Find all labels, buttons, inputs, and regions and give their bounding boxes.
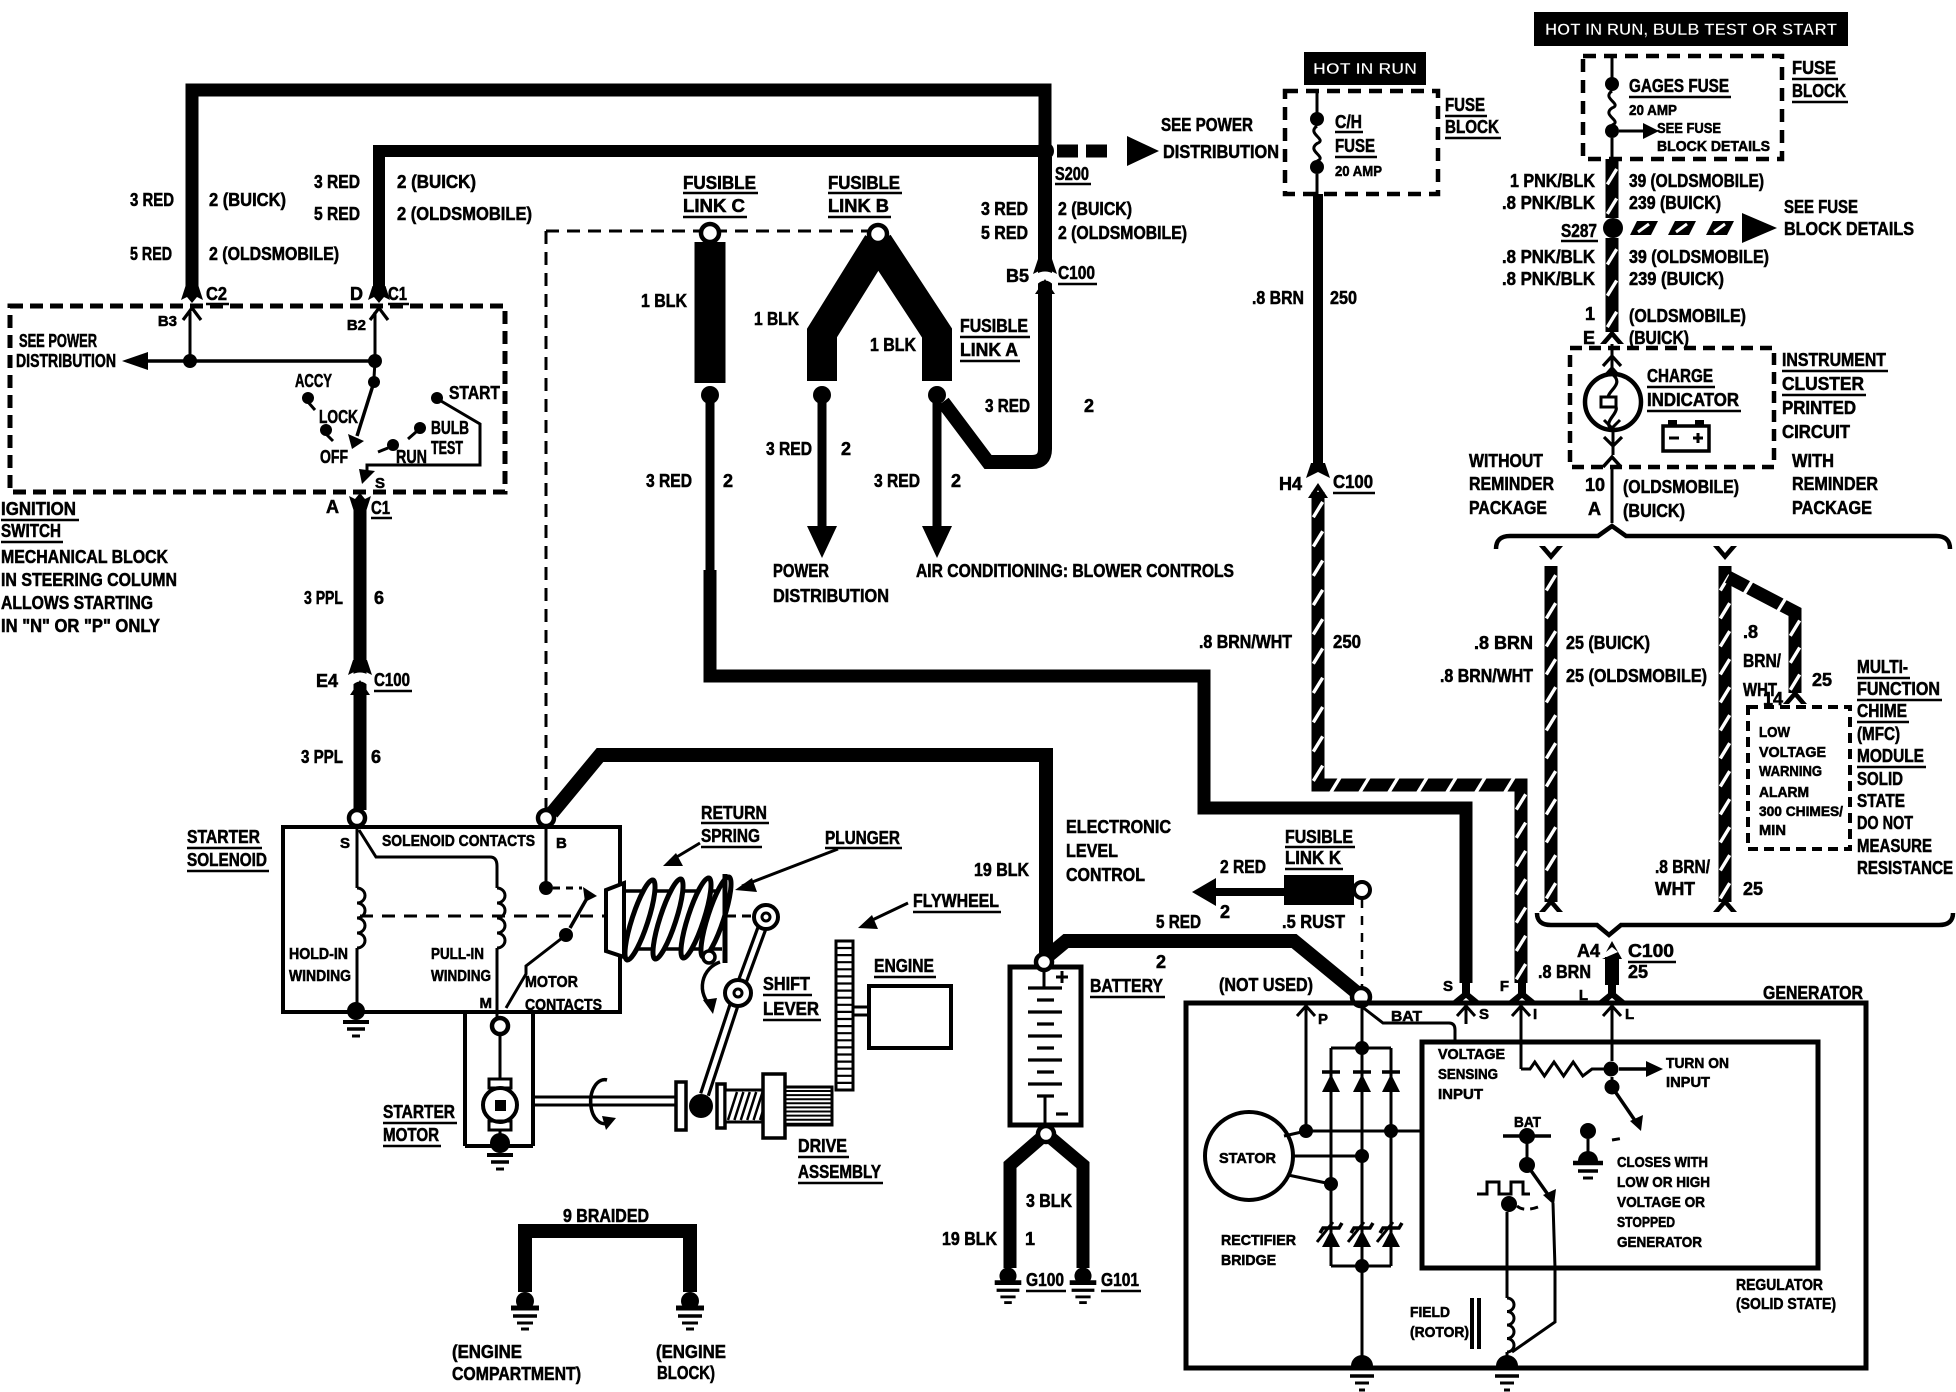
plunger face plate xyxy=(723,874,728,963)
terminal L generator xyxy=(1608,982,1616,996)
svg-text:FUSIBLE: FUSIBLE xyxy=(828,173,900,193)
svg-text:C100: C100 xyxy=(1333,472,1373,492)
stator xyxy=(1205,1112,1293,1200)
svg-text:INSTRUMENT: INSTRUMENT xyxy=(1782,350,1886,370)
svg-text:LEVEL: LEVEL xyxy=(1066,841,1118,861)
motor contacts switch xyxy=(545,826,548,882)
connector C1 terminal D xyxy=(368,286,390,303)
stator phase wires xyxy=(1284,1131,1422,1136)
svg-text:25: 25 xyxy=(1812,670,1832,690)
svg-text:RECTIFIER: RECTIFIER xyxy=(1221,1232,1296,1249)
svg-text:39 (OLDSMOBILE): 39 (OLDSMOBILE) xyxy=(1629,171,1764,191)
svg-text:3 RED: 3 RED xyxy=(981,199,1028,219)
svg-text:2: 2 xyxy=(723,471,733,491)
svg-text:D: D xyxy=(350,284,363,304)
svg-text:HOT IN RUN, BULB TEST OR START: HOT IN RUN, BULB TEST OR START xyxy=(1545,20,1838,39)
generator box xyxy=(1186,1003,1866,1368)
svg-text:3 RED: 3 RED xyxy=(874,471,920,491)
ground field winding xyxy=(1506,1352,1509,1356)
svg-text:MIN: MIN xyxy=(1759,822,1786,839)
svg-text:5 RED: 5 RED xyxy=(314,204,360,224)
svg-text:239 (BUICK): 239 (BUICK) xyxy=(1629,193,1721,213)
svg-text:BRN/: BRN/ xyxy=(1743,651,1781,671)
svg-text:19 BLK: 19 BLK xyxy=(974,860,1029,880)
svg-text:WHT: WHT xyxy=(1655,879,1695,899)
svg-text:STATE: STATE xyxy=(1857,791,1905,811)
svg-text:GENERATOR: GENERATOR xyxy=(1617,1234,1702,1251)
helix section hatched xyxy=(725,1090,763,1122)
svg-text:REMINDER: REMINDER xyxy=(1792,474,1878,494)
svg-text:3 RED: 3 RED xyxy=(766,439,812,459)
svg-text:SEE FUSE: SEE FUSE xyxy=(1784,197,1858,217)
svg-text:2 (BUICK): 2 (BUICK) xyxy=(1058,199,1132,219)
svg-text:B2: B2 xyxy=(347,317,366,334)
svg-text:BLOCK: BLOCK xyxy=(1445,117,1499,137)
svg-text:VOLTAGE OR: VOLTAGE OR xyxy=(1617,1194,1705,1211)
svg-text:SENSING: SENSING xyxy=(1438,1066,1498,1083)
rotation arrow on shaft xyxy=(591,1080,610,1124)
node S terminal solenoid xyxy=(349,810,365,826)
svg-text:START: START xyxy=(449,383,500,403)
svg-text:PLUNGER: PLUNGER xyxy=(825,828,900,848)
wire B3 to bus xyxy=(189,312,192,361)
svg-text:WINDING: WINDING xyxy=(431,968,491,985)
svg-text:RETURN: RETURN xyxy=(701,803,767,823)
wire 3 RED link C to generator S terminal xyxy=(710,570,1466,983)
internal terminal arrows P S I L BAT xyxy=(1305,1006,1308,1024)
ignition switch rotary contacts xyxy=(374,361,375,378)
brace top xyxy=(1496,526,1950,549)
svg-text:C2: C2 xyxy=(206,284,227,304)
connector C1 terminal A at bottom of ignition switch xyxy=(349,493,371,510)
svg-text:GAGES FUSE: GAGES FUSE xyxy=(1629,76,1729,96)
svg-text:FUSIBLE: FUSIBLE xyxy=(960,316,1028,336)
svg-text:3 RED: 3 RED xyxy=(985,396,1030,416)
wire .8 BRN 25 BUICK left hatched xyxy=(1539,546,1563,560)
svg-text:IN STEERING COLUMN: IN STEERING COLUMN xyxy=(1,570,177,590)
rectifier bridge xyxy=(1331,1047,1391,1050)
svg-text:VOLTAGE: VOLTAGE xyxy=(1759,744,1826,761)
svg-text:WITHOUT: WITHOUT xyxy=(1469,451,1543,471)
gages fuse 20 amp xyxy=(1611,56,1614,78)
wire 3 RED to AIR CONDITIONING arrow xyxy=(933,395,942,528)
svg-text:AIR CONDITIONING: BLOWER CONTR: AIR CONDITIONING: BLOWER CONTROLS xyxy=(916,561,1234,581)
splined shaft xyxy=(785,1087,832,1125)
svg-text:WINDING: WINDING xyxy=(289,968,351,985)
svg-text:ASSEMBLY: ASSEMBLY xyxy=(798,1162,881,1182)
svg-text:S: S xyxy=(340,835,350,852)
starter motor M xyxy=(499,1034,502,1080)
svg-text:MOTOR: MOTOR xyxy=(525,974,578,991)
arrow SEE FUSE BLOCK DETAILS inside fuse box xyxy=(1619,130,1643,133)
wire regulator to field xyxy=(1512,1203,1555,1352)
svg-text:PACKAGE: PACKAGE xyxy=(1792,498,1872,518)
svg-text:25: 25 xyxy=(1743,879,1763,899)
svg-text:10: 10 xyxy=(1585,475,1605,495)
svg-text:LEVER: LEVER xyxy=(763,999,819,1019)
svg-text:L: L xyxy=(1625,1006,1634,1023)
wire .8 BRN/WHT 250 to generator F terminal xyxy=(1318,492,1521,983)
svg-text:2 (BUICK): 2 (BUICK) xyxy=(397,172,476,192)
svg-text:CHARGE: CHARGE xyxy=(1647,366,1713,386)
svg-text:SWITCH: SWITCH xyxy=(1,521,61,541)
L terminal switch xyxy=(1611,1022,1614,1061)
svg-text:BLOCK): BLOCK) xyxy=(657,1363,715,1383)
svg-text:2: 2 xyxy=(841,439,851,459)
svg-text:IN "N" OR "P" ONLY: IN "N" OR "P" ONLY xyxy=(1,616,160,636)
svg-text:M: M xyxy=(480,995,493,1012)
svg-text:FIELD: FIELD xyxy=(1410,1304,1450,1321)
wire dashed arrow SEE POWER DISTRIBUTION right xyxy=(1057,145,1078,158)
svg-text:MODULE: MODULE xyxy=(1857,746,1924,766)
svg-text:25: 25 xyxy=(1628,962,1648,982)
wire 3 RED to POWER DISTRIBUTION arrow xyxy=(818,395,827,528)
svg-text:CLOSES WITH: CLOSES WITH xyxy=(1617,1154,1708,1171)
battery icon in cluster xyxy=(1663,426,1709,451)
svg-text:PRINTED: PRINTED xyxy=(1782,398,1856,418)
svg-text:B5: B5 xyxy=(1006,266,1029,286)
wire 3 BLK battery to G101 xyxy=(1051,1138,1083,1268)
svg-text:3 PPL: 3 PPL xyxy=(301,747,343,767)
svg-text:(NOT USED): (NOT USED) xyxy=(1219,975,1313,995)
svg-text:S200: S200 xyxy=(1055,164,1089,184)
svg-text:P: P xyxy=(1318,1011,1328,1028)
svg-text:3 PPL: 3 PPL xyxy=(304,588,343,608)
drive shaft from motor xyxy=(533,1096,676,1099)
svg-text:SOLENOID: SOLENOID xyxy=(187,850,267,870)
svg-text:FUNCTION: FUNCTION xyxy=(1857,679,1940,699)
svg-text:2 (BUICK): 2 (BUICK) xyxy=(209,190,286,210)
hold-in winding xyxy=(356,827,359,888)
svg-text:(OLDSMOBILE): (OLDSMOBILE) xyxy=(1629,306,1746,326)
wire 5 RED battery to generator BAT xyxy=(1048,941,1356,992)
wire .8 BRN 25 to L terminal xyxy=(1605,957,1619,985)
ground engine block xyxy=(681,1292,699,1310)
wire cluster to brace xyxy=(1611,467,1614,523)
svg-text:1 PNK/BLK: 1 PNK/BLK xyxy=(1510,171,1595,191)
svg-text:5 RED: 5 RED xyxy=(130,244,172,264)
svg-text:STOPPED: STOPPED xyxy=(1617,1214,1675,1231)
svg-text:.8 BRN/WHT: .8 BRN/WHT xyxy=(1440,666,1533,686)
ground at hold-in winding xyxy=(347,1002,365,1020)
svg-text:(BUICK): (BUICK) xyxy=(1623,501,1685,521)
svg-text:25 (OLDSMOBILE): 25 (OLDSMOBILE) xyxy=(1566,666,1707,686)
resistor and turn on input xyxy=(1520,1022,1523,1069)
svg-text:1: 1 xyxy=(1025,1229,1035,1249)
svg-text:BLOCK DETAILS: BLOCK DETAILS xyxy=(1657,138,1770,155)
wire .8 BRN/WHT 25 right hatched xyxy=(1713,546,1737,560)
svg-text:3 BLK: 3 BLK xyxy=(1026,1191,1072,1211)
wire W1: battery feed top-left to S200 corner xyxy=(192,90,1045,288)
drive collar and ball xyxy=(676,1082,686,1130)
svg-text:C100: C100 xyxy=(1058,263,1095,283)
svg-text:SHIFT: SHIFT xyxy=(763,974,810,994)
engine box xyxy=(853,1006,869,1009)
svg-text:ELECTRONIC: ELECTRONIC xyxy=(1066,817,1171,837)
svg-text:I: I xyxy=(1533,1006,1537,1023)
starter motor box xyxy=(463,1012,467,1146)
svg-text:.8 BRN: .8 BRN xyxy=(1474,633,1533,653)
svg-text:3 RED: 3 RED xyxy=(646,471,692,491)
ground L switch xyxy=(1578,1151,1598,1161)
svg-text:CHIME: CHIME xyxy=(1857,701,1907,721)
pull-in winding xyxy=(359,830,497,888)
svg-text:1 BLK: 1 BLK xyxy=(641,291,687,311)
title HOT IN RUN xyxy=(1304,52,1426,85)
shift lever xyxy=(746,930,765,983)
svg-text:LOW OR HIGH: LOW OR HIGH xyxy=(1617,1174,1710,1191)
svg-text:BRIDGE: BRIDGE xyxy=(1221,1252,1276,1269)
svg-text:BULB: BULB xyxy=(431,418,469,438)
fusible link A xyxy=(869,225,887,243)
svg-text:19 BLK: 19 BLK xyxy=(942,1229,997,1249)
svg-text:3 RED: 3 RED xyxy=(314,172,360,192)
regulator box xyxy=(1422,1042,1818,1268)
node battery negative terminal xyxy=(1038,1126,1054,1142)
svg-text:LOCK: LOCK xyxy=(319,407,358,427)
svg-text:250: 250 xyxy=(1330,288,1357,308)
svg-text:F: F xyxy=(1500,978,1509,995)
ground G101 xyxy=(1074,1267,1091,1284)
wire 1 PNK/BLK fuse to S287 xyxy=(1606,159,1619,218)
title HOT IN RUN BULB TEST OR START xyxy=(1534,12,1848,46)
dashed link plunger to shift lever xyxy=(727,915,752,918)
svg-text:SPRING: SPRING xyxy=(701,826,760,846)
wire B2 to bus xyxy=(374,312,377,361)
svg-text:TEST: TEST xyxy=(431,438,463,458)
svg-text:S: S xyxy=(1443,978,1453,995)
wire W2: second feed to S200 junction xyxy=(379,151,1040,288)
svg-text:39 (OLDSMOBILE): 39 (OLDSMOBILE) xyxy=(1629,247,1769,267)
svg-text:HOLD-IN: HOLD-IN xyxy=(289,946,348,963)
svg-text:MULTI-: MULTI- xyxy=(1857,657,1908,677)
svg-text:A: A xyxy=(326,497,339,517)
svg-text:DISTRIBUTION: DISTRIBUTION xyxy=(1163,142,1279,162)
svg-text:(SOLID STATE): (SOLID STATE) xyxy=(1736,1296,1836,1313)
svg-text:BLOCK: BLOCK xyxy=(1792,81,1846,101)
svg-text:ALLOWS STARTING: ALLOWS STARTING xyxy=(1,593,153,613)
charge indicator bulb xyxy=(1611,344,1614,376)
svg-text:RESISTANCE: RESISTANCE xyxy=(1857,858,1953,878)
svg-text:G101: G101 xyxy=(1101,1270,1139,1290)
wire internal bus with arrow to SEE POWER DISTRIBUTION xyxy=(128,359,375,363)
svg-text:BATTERY: BATTERY xyxy=(1090,976,1163,996)
wire 19 BLK solenoid B to battery positive xyxy=(552,755,1046,953)
brace bottom xyxy=(1537,913,1953,935)
svg-text:2: 2 xyxy=(951,471,961,491)
svg-text:2 (OLDSMOBILE): 2 (OLDSMOBILE) xyxy=(1058,223,1187,243)
svg-text:ACCY: ACCY xyxy=(295,371,332,391)
battery xyxy=(1010,967,1081,1125)
flywheel gear rack xyxy=(836,941,853,1090)
svg-text:250: 250 xyxy=(1333,632,1361,652)
svg-text:BLOCK DETAILS: BLOCK DETAILS xyxy=(1784,219,1914,239)
svg-text:DISTRIBUTION: DISTRIBUTION xyxy=(16,351,116,371)
MFC module dashed box xyxy=(1748,707,1850,849)
svg-text:B: B xyxy=(556,835,567,852)
drive collar large xyxy=(763,1074,785,1138)
svg-text:LINK A: LINK A xyxy=(960,340,1018,360)
svg-text:.8 PNK/BLK: .8 PNK/BLK xyxy=(1502,247,1595,267)
svg-text:VOLTAGE: VOLTAGE xyxy=(1438,1046,1505,1063)
svg-text:INPUT: INPUT xyxy=(1438,1086,1483,1103)
svg-text:WARNING: WARNING xyxy=(1759,763,1822,780)
svg-text:2 (OLDSMOBILE): 2 (OLDSMOBILE) xyxy=(397,204,532,224)
svg-text:SEE POWER: SEE POWER xyxy=(19,331,97,351)
svg-text:(OLDSMOBILE): (OLDSMOBILE) xyxy=(1623,477,1739,497)
svg-text:A4: A4 xyxy=(1577,941,1600,961)
svg-text:DISTRIBUTION: DISTRIBUTION xyxy=(773,586,889,606)
svg-text:(BUICK): (BUICK) xyxy=(1629,328,1689,348)
svg-text:LINK B: LINK B xyxy=(828,196,889,216)
svg-text:WITH: WITH xyxy=(1792,451,1834,471)
ignition switch dashed box xyxy=(10,306,505,492)
svg-text:2: 2 xyxy=(1220,902,1230,922)
plunger linkage dashed line xyxy=(360,915,606,918)
svg-text:S: S xyxy=(375,475,385,492)
svg-text:LOW: LOW xyxy=(1759,724,1791,741)
svg-text:CIRCUIT: CIRCUIT xyxy=(1782,422,1850,442)
svg-text:TURN ON: TURN ON xyxy=(1666,1055,1729,1072)
ground engine compartment xyxy=(516,1292,534,1310)
svg-text:DRIVE: DRIVE xyxy=(798,1136,847,1156)
svg-text:GENERATOR: GENERATOR xyxy=(1763,983,1863,1003)
svg-text:5 RED: 5 RED xyxy=(1156,912,1201,932)
svg-text:(ENGINE: (ENGINE xyxy=(656,1342,726,1362)
svg-text:S287: S287 xyxy=(1561,221,1597,241)
svg-text:LINK C: LINK C xyxy=(683,196,745,216)
svg-text:H4: H4 xyxy=(1279,474,1302,494)
svg-text:G100: G100 xyxy=(1026,1270,1064,1290)
svg-text:C1: C1 xyxy=(371,498,390,518)
svg-text:FUSE: FUSE xyxy=(1792,58,1836,78)
svg-text:SEE POWER: SEE POWER xyxy=(1161,115,1253,135)
svg-text:6: 6 xyxy=(374,588,384,608)
plunger and cylinder xyxy=(606,883,624,957)
svg-text:OFF: OFF xyxy=(320,447,348,467)
svg-text:HOT IN RUN: HOT IN RUN xyxy=(1313,61,1417,78)
svg-text:239 (BUICK): 239 (BUICK) xyxy=(1629,269,1724,289)
return spring coils xyxy=(619,878,660,963)
fuse C/H 20 AMP xyxy=(1316,91,1319,113)
svg-text:REGULATOR: REGULATOR xyxy=(1736,1277,1823,1294)
ground rectifier bridge xyxy=(1361,1266,1364,1356)
svg-text:300 CHIMES/: 300 CHIMES/ xyxy=(1759,803,1843,819)
wire P to stator bus xyxy=(1305,1022,1308,1131)
svg-text:.8 BRN: .8 BRN xyxy=(1252,288,1304,308)
node S200 junction dot xyxy=(1036,142,1054,160)
svg-text:CONTROL: CONTROL xyxy=(1066,865,1145,885)
svg-text:DO NOT: DO NOT xyxy=(1857,813,1913,833)
svg-text:.5 RUST: .5 RUST xyxy=(1282,912,1345,932)
field rotor winding xyxy=(1506,1212,1509,1298)
svg-text:SEE FUSE: SEE FUSE xyxy=(1657,120,1721,137)
svg-text:STARTER: STARTER xyxy=(187,827,260,847)
svg-text:.8: .8 xyxy=(1743,622,1758,642)
svg-text:1 BLK: 1 BLK xyxy=(870,335,916,355)
connector C2 at ignition switch xyxy=(181,286,203,303)
svg-text:2: 2 xyxy=(1084,396,1094,416)
dashed wire from fusible links to solenoid B xyxy=(546,230,868,233)
svg-text:(ROTOR): (ROTOR) xyxy=(1410,1324,1469,1341)
svg-text:FUSIBLE: FUSIBLE xyxy=(683,173,756,193)
wire 3 RED below link C xyxy=(706,395,715,580)
svg-text:C100: C100 xyxy=(1628,941,1674,961)
wire 19 BLK battery to G100 xyxy=(1010,1138,1041,1268)
svg-text:ENGINE: ENGINE xyxy=(874,956,934,976)
connector C100 terminal E4 xyxy=(348,660,372,675)
svg-text:C/H: C/H xyxy=(1335,112,1362,132)
svg-text:PACKAGE: PACKAGE xyxy=(1469,498,1547,518)
svg-text:.8 BRN/WHT: .8 BRN/WHT xyxy=(1199,632,1292,652)
svg-text:ALARM: ALARM xyxy=(1759,784,1809,801)
svg-text:MOTOR: MOTOR xyxy=(383,1125,439,1145)
svg-text:B3: B3 xyxy=(158,313,177,330)
svg-text:9 BRAIDED: 9 BRAIDED xyxy=(563,1206,649,1226)
curved arrow at shift lever xyxy=(702,962,720,1006)
svg-text:STARTER: STARTER xyxy=(383,1102,455,1122)
svg-text:2 RED: 2 RED xyxy=(1220,857,1266,877)
instrument cluster dashed box xyxy=(1570,348,1774,467)
svg-text:CONTACTS: CONTACTS xyxy=(525,997,602,1014)
svg-text:3 RED: 3 RED xyxy=(130,190,174,210)
svg-text:(MFC): (MFC) xyxy=(1857,724,1900,744)
svg-text:1 BLK: 1 BLK xyxy=(754,309,799,329)
svg-text:COMPARTMENT): COMPARTMENT) xyxy=(452,1364,581,1384)
svg-text:E4: E4 xyxy=(316,671,338,691)
square wave symbol xyxy=(1477,1182,1530,1194)
node B terminal solenoid xyxy=(538,810,554,826)
svg-text:C100: C100 xyxy=(374,670,410,690)
svg-text:2: 2 xyxy=(1156,952,1166,972)
svg-text:SOLENOID CONTACTS: SOLENOID CONTACTS xyxy=(382,833,535,850)
node battery positive terminal xyxy=(1036,954,1052,970)
svg-text:A: A xyxy=(1588,499,1601,519)
ground at starter motor xyxy=(490,1133,510,1153)
svg-text:MECHANICAL BLOCK: MECHANICAL BLOCK xyxy=(1,547,168,567)
svg-text:C1: C1 xyxy=(388,284,407,304)
svg-text:SOLID: SOLID xyxy=(1857,769,1903,789)
9 braided ground strap xyxy=(525,1231,690,1292)
wire BAT stud to regulator xyxy=(1361,1006,1455,1042)
svg-text:CLUSTER: CLUSTER xyxy=(1782,374,1864,394)
svg-text:REMINDER: REMINDER xyxy=(1469,474,1554,494)
svg-text:2 (OLDSMOBILE): 2 (OLDSMOBILE) xyxy=(209,244,339,264)
svg-text:INDICATOR: INDICATOR xyxy=(1647,390,1739,410)
svg-text:STATOR: STATOR xyxy=(1219,1150,1276,1167)
svg-text:E: E xyxy=(1583,328,1595,348)
svg-text:FUSIBLE: FUSIBLE xyxy=(1285,827,1353,847)
svg-text:20 AMP: 20 AMP xyxy=(1629,102,1677,119)
connector C100 terminal B5 xyxy=(1033,259,1057,274)
wire 2 RED arrow to electronic level control xyxy=(1216,888,1285,896)
svg-text:MEASURE: MEASURE xyxy=(1857,836,1932,856)
svg-text:POWER: POWER xyxy=(773,561,829,581)
svg-text:(ENGINE: (ENGINE xyxy=(452,1342,522,1362)
svg-text:FLYWHEEL: FLYWHEEL xyxy=(913,891,999,911)
svg-text:IGNITION: IGNITION xyxy=(1,499,76,519)
svg-text:20 AMP: 20 AMP xyxy=(1335,163,1382,180)
svg-text:25 (BUICK): 25 (BUICK) xyxy=(1566,633,1650,653)
svg-text:.8 PNK/BLK: .8 PNK/BLK xyxy=(1502,269,1595,289)
connector C100 terminal H4 xyxy=(1306,463,1330,478)
svg-text:S: S xyxy=(1479,1006,1489,1023)
wire START contact to S terminal xyxy=(367,401,480,471)
dashed wire link K to BAT junction xyxy=(1361,899,1364,988)
wire .8 BRN 250 from fuse xyxy=(1313,194,1323,470)
svg-text:6: 6 xyxy=(371,747,381,767)
svg-text:.8 PNK/BLK: .8 PNK/BLK xyxy=(1502,193,1595,213)
